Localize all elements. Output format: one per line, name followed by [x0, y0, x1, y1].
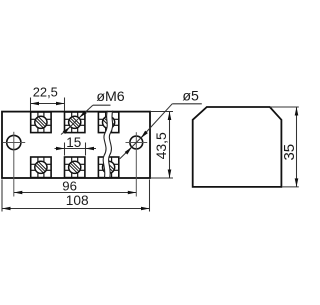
body outline (top view of terminal block)	[2, 112, 150, 178]
screw terminal row1 col3	[98, 112, 118, 133]
screw terminal row2 col2	[65, 157, 85, 178]
screw terminal row2 col3	[98, 157, 118, 178]
svg-text:15: 15	[66, 135, 81, 150]
leader o5	[120, 104, 202, 159]
svg-text:43,5: 43,5	[153, 132, 169, 159]
dimension 96	[14, 191, 137, 195]
svg-text:øM6: øM6	[96, 89, 124, 105]
break line left	[103, 111, 107, 179]
break line right	[109, 111, 113, 179]
screw terminal row1 col2	[65, 112, 85, 133]
screw terminal row1 col1	[31, 112, 51, 133]
screw terminal row2 col1	[31, 157, 51, 178]
svg-text:ø5: ø5	[182, 88, 199, 104]
dimension 15	[55, 143, 97, 156]
svg-text:22,5: 22,5	[33, 85, 58, 100]
mounting hole left	[3, 132, 26, 197]
svg-text:108: 108	[66, 193, 89, 208]
dimension 35	[270, 107, 299, 187]
dimension 108	[2, 179, 150, 211]
hole o5	[126, 132, 148, 196]
leader oM6	[61, 105, 111, 134]
break band (white)	[103, 112, 113, 177]
dimension 22,5	[31, 98, 65, 112]
dimension 43,5	[151, 112, 173, 179]
svg-text:35: 35	[281, 144, 298, 161]
svg-text:96: 96	[62, 179, 77, 194]
side view outline	[193, 107, 282, 187]
